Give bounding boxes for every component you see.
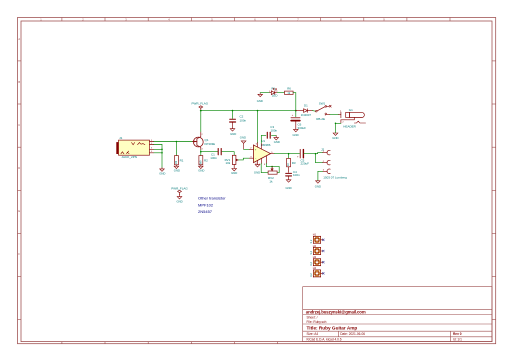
node power rail junction [200, 110, 202, 112]
wire C5 to speaker node [304, 153, 316, 155]
resistor R1 [174, 156, 184, 167]
svg-text:P1: P1 [272, 86, 276, 90]
resistor R3 [286, 154, 296, 167]
ground C3 [274, 138, 280, 144]
svg-text:100n: 100n [240, 118, 247, 122]
frame grid labels [18, 17, 385, 256]
ground U1 pin4 [254, 165, 260, 175]
mounting hole H2 [309, 244, 324, 255]
ground R1 [174, 166, 180, 172]
battery G1 [339, 108, 366, 129]
svg-text:R1: R1 [180, 158, 184, 162]
svg-text:GND: GND [231, 171, 237, 175]
svg-text:GND: GND [174, 168, 180, 172]
wire R1 down [175, 142, 177, 156]
capacitor C4 [286, 167, 300, 180]
wire source node [200, 150, 202, 156]
svg-text:2N5457: 2N5457 [198, 209, 213, 214]
ground R2 [198, 166, 204, 172]
svg-text:PWR_FLAG: PWR_FLAG [171, 187, 188, 191]
ground speaker [315, 181, 321, 189]
svg-text:GND: GND [254, 171, 260, 175]
svg-text:3,2: 3,2 [309, 239, 313, 243]
svg-text:File: Ruby.sch: File: Ruby.sch [307, 320, 327, 324]
wire drain up [200, 111, 202, 132]
svg-text:Id: 1/1: Id: 1/1 [453, 338, 462, 342]
capacitor C6 power filter [291, 111, 306, 130]
svg-text:GND: GND [176, 199, 182, 203]
capacitor C5 output [297, 150, 309, 166]
note other transistor [198, 196, 226, 215]
LED D2 [269, 86, 278, 97]
gain pot RV2 wiring [261, 163, 279, 172]
svg-text:R3: R3 [292, 161, 296, 165]
svg-text:LED: LED [272, 94, 278, 98]
svg-text:GND: GND [285, 186, 291, 190]
svg-text:J1: J1 [119, 136, 123, 140]
svg-text:E: E [18, 209, 20, 213]
svg-text:100n: 100n [210, 156, 217, 160]
svg-text:D: D [18, 166, 20, 170]
wire wiper to pin3 [238, 158, 249, 160]
svg-text:GND: GND [198, 168, 204, 172]
node junction R1 tap [176, 141, 178, 143]
ground RV1 [231, 169, 237, 176]
svg-text:G1: G1 [349, 108, 353, 112]
svg-text:GND: GND [240, 136, 246, 140]
svg-text:100n: 100n [271, 129, 278, 133]
svg-text:MPF102: MPF102 [198, 202, 214, 207]
svg-text:1N4007: 1N4007 [301, 113, 312, 117]
svg-text:100n: 100n [293, 173, 300, 177]
power flag PWR_FLAG top [192, 102, 209, 111]
connector J2 speaker [316, 148, 348, 180]
ground C6 [292, 129, 298, 137]
switch SW1 [312, 101, 331, 121]
title block outline [303, 287, 492, 342]
ground battery [332, 133, 338, 140]
svg-text:KP303E: KP303E [205, 142, 216, 146]
capacitor C1 [210, 149, 221, 160]
capacitor C3 [261, 125, 277, 143]
svg-text:330uF: 330uF [298, 126, 307, 130]
svg-text:GND: GND [274, 140, 280, 144]
svg-text:GND: GND [257, 99, 263, 103]
capacitor C2 [230, 110, 247, 129]
svg-text:GND: GND [292, 133, 298, 137]
svg-text:Size: A4: Size: A4 [307, 332, 319, 336]
svg-text:1503 07 Lumberg: 1503 07 Lumberg [323, 176, 347, 180]
diode D1 [296, 104, 313, 117]
svg-text:SW1: SW1 [319, 101, 326, 105]
svg-text:KiCad E.D.A. kicad 4.0.6: KiCad E.D.A. kicad 4.0.6 [307, 338, 342, 342]
ground LED branch [257, 93, 263, 103]
mounting hole H3 [309, 255, 324, 266]
svg-text:3k9: 3k9 [198, 160, 202, 165]
mounting hole H1 [309, 233, 324, 244]
power flag PWR_FLAG bottom [171, 187, 188, 197]
svg-text:PWR_FLAG: PWR_FLAG [192, 102, 209, 106]
svg-text:R6: R6 [287, 87, 291, 91]
svg-text:J2: J2 [321, 148, 325, 152]
ground C2 [230, 129, 236, 136]
svg-text:Rev 0: Rev 0 [453, 332, 462, 336]
resistor R6 [285, 87, 294, 95]
svg-text:10k: 10k [226, 161, 231, 165]
wire R6 down to rail [293, 92, 296, 94]
svg-text:RB-2E: RB-2E [316, 117, 325, 121]
svg-text:GND: GND [159, 171, 165, 175]
op-amp U1 LM386 [249, 139, 274, 166]
ground C4 [285, 180, 291, 190]
svg-text:A: A [18, 37, 20, 41]
svg-text:1k: 1k [269, 179, 273, 183]
svg-text:GND: GND [315, 185, 321, 189]
svg-text:B: B [18, 80, 20, 84]
wire output [274, 153, 300, 155]
svg-text:3,2: 3,2 [309, 262, 313, 266]
node jack ground junctions [161, 149, 163, 151]
svg-text:HEADER: HEADER [343, 125, 356, 129]
svg-text:GND: GND [230, 132, 236, 136]
svg-text:220uF: 220uF [301, 161, 310, 165]
svg-text:JACK_2PN: JACK_2PN [121, 155, 137, 159]
wire power rail [201, 110, 296, 112]
wire LED to R6 [277, 92, 284, 94]
potentiometer RV2 [268, 167, 277, 184]
svg-text:GND: GND [332, 136, 338, 140]
ground U1 pin2 [240, 136, 246, 150]
svg-text:LM386: LM386 [261, 143, 271, 147]
transistor Q1 [193, 132, 216, 151]
wire gnd to pin2 [244, 148, 250, 150]
wire C1 to RV1 [222, 151, 234, 153]
svg-text:Other transistor: Other transistor [198, 196, 226, 201]
wire battery neg to gnd [336, 122, 341, 124]
svg-text:andrzej.buszynski@gmail.com: andrzej.buszynski@gmail.com [306, 309, 366, 314]
wire speaker pin3 to gnd [318, 170, 323, 172]
mounting hole H4 [309, 266, 324, 277]
svg-text:C: C [18, 123, 20, 127]
resistor R2 [198, 156, 208, 167]
svg-text:1M: 1M [174, 161, 178, 165]
svg-text:3,2: 3,2 [309, 273, 313, 277]
svg-text:D1: D1 [304, 104, 308, 108]
svg-text:Title: Ruby Guitar Amp: Title: Ruby Guitar Amp [307, 325, 358, 330]
svg-text:R2: R2 [204, 158, 208, 162]
svg-text:Date: 2021-06-06: Date: 2021-06-06 [340, 332, 365, 336]
potentiometer RV1 [225, 155, 239, 168]
wire gnd to LED [260, 92, 270, 94]
jack J1 [116, 136, 153, 159]
wire switch to battery [330, 113, 339, 115]
svg-text:3,2: 3,2 [309, 250, 313, 254]
wire Vs from rail [257, 111, 259, 143]
ground jack [159, 168, 165, 176]
wire signal jack to gate [154, 141, 193, 143]
ground PWR_FLAG [176, 197, 182, 204]
wire jack ring pins to ground bus [154, 144, 163, 146]
